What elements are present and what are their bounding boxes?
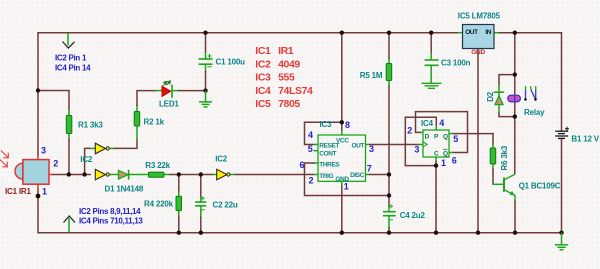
wire: C1 top plate lead xyxy=(205,52,207,59)
resistor R2 xyxy=(134,112,140,127)
wire: Q1 emitter to rail xyxy=(514,200,516,233)
wire: IC4 CLR node down xyxy=(435,161,437,233)
wire: R4 top lead from node xyxy=(178,175,180,193)
op-amp/inverter IC2a xyxy=(95,143,109,154)
junction: left rail at R1 branch xyxy=(36,88,40,92)
wire: IC3 OUT to IC4 CLK xyxy=(369,144,420,146)
junction: bottom rail at IC5 GND xyxy=(476,231,480,235)
svg-text:IC4 Pins 710,11,13: IC4 Pins 710,11,13 xyxy=(79,217,143,226)
relay coil xyxy=(508,95,521,102)
wire: C4 bottom to rail xyxy=(388,227,390,233)
capacitor C2 xyxy=(195,202,206,206)
junction: top rail at R5 xyxy=(387,31,391,35)
wire: IC3 VCC pin stub xyxy=(341,131,343,136)
ground arrow for IC2/IC4 pins xyxy=(64,216,76,232)
wire: R1 branch from left rail xyxy=(38,91,69,111)
capacitor C4 xyxy=(383,212,396,216)
wire: R1 bottom lead xyxy=(68,133,70,140)
svg-text:5: 5 xyxy=(453,134,458,144)
transistor Q1 BC109C xyxy=(504,174,515,200)
svg-text:IC5 LM7805: IC5 LM7805 xyxy=(458,11,501,20)
LED1 xyxy=(162,81,172,98)
svg-text:DISC: DISC xyxy=(350,172,365,179)
wire: IC2c input stub xyxy=(212,174,217,176)
inverter IC2b xyxy=(95,169,109,180)
wire: C4 top lead xyxy=(388,196,390,208)
wire: IC4 D pin stub xyxy=(420,131,424,133)
svg-text:555: 555 xyxy=(278,72,295,84)
wire: LED1 anode stub xyxy=(155,90,162,92)
wire: IC2c output stub xyxy=(230,174,236,176)
wire: C3 top lead from rail xyxy=(430,33,432,54)
wire: C4 top plate stub xyxy=(388,207,390,212)
supply arrow to IC2 pin1 / IC4 pin14 xyxy=(63,33,75,48)
svg-text:7: 7 xyxy=(367,164,372,174)
wire: IC3 THRES pin stub xyxy=(314,162,319,164)
svg-text:IC1 IR1: IC1 IR1 xyxy=(5,187,31,196)
svg-text:IC2 Pins 8,9,11,14: IC2 Pins 8,9,11,14 xyxy=(79,207,141,216)
junction: top rail at IC3 VCC xyxy=(340,31,344,35)
svg-text:8: 8 xyxy=(345,120,350,130)
junction: top rail at C1 xyxy=(203,31,207,35)
svg-text:GND: GND xyxy=(471,49,485,56)
capacitor C3 xyxy=(425,60,439,65)
wire: R4 top stub xyxy=(178,192,180,198)
wire: IC3 CONT pin 5 stub xyxy=(314,150,319,152)
wire: IC3 DISC to R5 column xyxy=(369,174,389,176)
wire: +5V top rail left of IC5 xyxy=(38,33,458,156)
wire: IC3 GND pin 1 to rail xyxy=(341,186,343,233)
wire: D2 branch bottom xyxy=(499,113,515,117)
junction: pin2 row at IC2a branch xyxy=(82,172,86,176)
ground symbol at battery / bottom rail xyxy=(555,233,568,250)
svg-text:D1 1N4148: D1 1N4148 xyxy=(105,184,144,193)
IC4 clock symbol xyxy=(423,142,427,147)
svg-text:IR1: IR1 xyxy=(278,45,294,57)
svg-text:C1 100u: C1 100u xyxy=(216,57,246,66)
wire: IC2a output to R2 xyxy=(114,139,137,148)
diode D1 1N4148 xyxy=(118,170,128,180)
junction: signal row at R4 xyxy=(177,172,181,176)
svg-text:74LS74: 74LS74 xyxy=(278,85,313,97)
wire: IR1 pin2 signal row xyxy=(52,174,91,176)
wire: R6 bottom stub xyxy=(492,163,494,169)
junction: LED cathode / C1 ground node xyxy=(203,88,207,92)
svg-text:B1 12 V: B1 12 V xyxy=(571,134,599,143)
wire: C2 bottom to rail xyxy=(200,217,202,233)
svg-text:1: 1 xyxy=(344,182,349,192)
junction: bottom rail at IC4 CLR xyxy=(434,231,438,235)
wire: IC3 RESET pin 4 loop xyxy=(305,122,342,144)
svg-text:3: 3 xyxy=(369,144,374,154)
wire: IC3 OUT pin stub xyxy=(366,144,371,146)
svg-text:IC2: IC2 xyxy=(255,58,271,70)
wire: IC2a input stub xyxy=(90,147,95,149)
C1 polarity marks xyxy=(208,54,212,67)
wire: D2 anode stub xyxy=(498,104,500,113)
junction: bottom rail at R4 xyxy=(177,231,181,235)
svg-text:IC4: IC4 xyxy=(255,85,271,97)
inverter IC2c xyxy=(217,169,230,180)
ground symbol under C1/LED node xyxy=(199,91,212,107)
svg-text:C2 22u: C2 22u xyxy=(213,200,238,209)
wire: R5 top stub xyxy=(388,59,390,65)
svg-text:6: 6 xyxy=(300,160,305,170)
svg-text:7805: 7805 xyxy=(278,98,300,110)
wire: LED1 cathode stub xyxy=(173,90,180,92)
junction: top rail at C3 xyxy=(429,31,433,35)
ground symbol under C3 xyxy=(422,83,442,88)
wire: relay coil bottom to collector node xyxy=(514,102,516,175)
IC3 pin numbers xyxy=(300,120,375,192)
junction: IR1 pin1 node xyxy=(36,194,41,199)
svg-text:R5 1M: R5 1M xyxy=(360,71,383,80)
wire: IC2b output stub to D1 anode xyxy=(109,174,118,176)
junction: DISC at R5 column xyxy=(387,172,391,176)
regulator IC5 LM7805 xyxy=(463,25,495,49)
resistor R1 xyxy=(66,116,72,134)
svg-text:Q1 BC109C: Q1 BC109C xyxy=(519,182,561,191)
IC list text block xyxy=(255,45,313,110)
svg-text:IC5: IC5 xyxy=(255,98,271,110)
wire: R6 top stub xyxy=(492,144,494,150)
wire: 12V column from rail to relay coil xyxy=(514,33,516,95)
junction: bottom rail at IC3 GND xyxy=(340,231,344,235)
svg-text:IC2 Pin 1: IC2 Pin 1 xyxy=(55,54,87,63)
svg-text:Q: Q xyxy=(443,134,448,141)
wire: LED1 cathode to C1 ground node xyxy=(178,90,206,92)
wire: IC4 CLR pin stub xyxy=(435,157,437,162)
wire: IC3 DISC pin stub xyxy=(366,174,371,176)
svg-text:C3 100n: C3 100n xyxy=(441,58,471,67)
svg-text:R4 220k: R4 220k xyxy=(144,200,174,209)
svg-text:4049: 4049 xyxy=(278,58,300,70)
wire: IC3 VCC pin 8 from top rail xyxy=(341,33,343,132)
svg-text:4: 4 xyxy=(439,118,444,128)
flip-flop IC4 74LS74 box xyxy=(423,130,449,157)
wire: IC5 OUT pin stub xyxy=(458,32,463,34)
svg-text:IC3: IC3 xyxy=(320,120,333,129)
wire: C1 bottom to ground node xyxy=(205,71,207,91)
wire: C1 bottom plate lead xyxy=(205,65,207,73)
resistor R6 xyxy=(490,148,496,164)
wire: IC3 RESET pin stub xyxy=(314,144,319,146)
svg-text:2: 2 xyxy=(53,158,58,168)
svg-text:R2 1k: R2 1k xyxy=(144,118,165,127)
wire: R2 top lead xyxy=(136,105,138,112)
svg-text:OUT: OUT xyxy=(465,29,478,36)
wire: C3 top plate stub xyxy=(430,53,432,60)
junction: 12V rail at relay column xyxy=(513,31,517,35)
svg-text:R1 3k3: R1 3k3 xyxy=(78,121,103,130)
svg-text:RESET: RESET xyxy=(319,143,339,150)
wire: IC2a input branch up xyxy=(85,148,91,174)
junction: IC4 PRE/CLR tie xyxy=(434,163,438,167)
wire: IC3 TRIG pin stub xyxy=(314,174,319,176)
wire: C1 top lead from rail xyxy=(205,33,207,53)
wire: R4 bottom to rail xyxy=(178,216,180,233)
wire: R3 to IC2c input xyxy=(170,174,214,176)
svg-text:CONT: CONT xyxy=(319,151,336,158)
svg-text:Relay: Relay xyxy=(524,108,545,117)
wire: IC4 Q output to R6 xyxy=(453,134,493,145)
wire: battery minus to bottom rail xyxy=(561,139,563,233)
wire: IC4 Q pin stub xyxy=(449,133,454,135)
svg-text:LED1: LED1 xyxy=(159,99,179,108)
wire: IC5 GND pin down to rail xyxy=(477,49,479,233)
wire: R5 top lead from rail xyxy=(388,33,390,60)
battery B1 xyxy=(555,131,568,138)
svg-text:P: P xyxy=(434,134,439,141)
wire: R4 bottom stub xyxy=(178,210,180,217)
wire: IC5 IN pin stub xyxy=(494,32,500,34)
wire: IC4 PRE pin stub xyxy=(435,125,437,130)
svg-text:6: 6 xyxy=(452,155,457,165)
capacitor C1 xyxy=(199,59,213,64)
wire: D1 cathode to R3 xyxy=(129,174,149,176)
C2 polarity marks xyxy=(201,196,205,210)
svg-text:C: C xyxy=(434,150,439,157)
svg-text:Q: Q xyxy=(443,150,448,157)
svg-text:5: 5 xyxy=(308,144,313,154)
IR beam arrows xyxy=(0,151,8,167)
junction: THRES loop at C4 xyxy=(387,193,391,197)
junction: 12V column at D2 top xyxy=(513,72,517,76)
wire: R2 top to LED1 anode xyxy=(137,91,156,106)
op-amp U IC3 555 box xyxy=(318,135,366,181)
svg-text:1: 1 xyxy=(441,158,446,168)
svg-text:OUT: OUT xyxy=(351,143,364,150)
svg-text:IC4 Pin 14: IC4 Pin 14 xyxy=(55,64,91,73)
junction: signal row at C2 xyxy=(199,172,203,176)
wire: C2 top lead from node xyxy=(200,175,202,199)
wire: D2 branch top xyxy=(499,75,515,86)
battery plus sign xyxy=(565,127,569,131)
wire: D2 cathode stub xyxy=(498,85,500,97)
junction: pin2 row at R1 xyxy=(67,172,71,176)
wire: C2 top plate stub xyxy=(200,197,202,202)
junction: IC3 VCC / RESET branch xyxy=(340,120,344,124)
svg-text:IC2: IC2 xyxy=(80,155,93,164)
wire: R5 bottom through DISC node to C4 node xyxy=(388,86,390,196)
svg-text:THRES: THRES xyxy=(319,162,340,169)
svg-text:R3 22k: R3 22k xyxy=(145,161,170,170)
IC3 inner pin names xyxy=(319,137,364,183)
wire: IC3 GND pin stub xyxy=(341,181,343,186)
svg-text:3: 3 xyxy=(414,145,419,155)
wire: IC2c output to IC3 TRIG xyxy=(235,174,315,176)
IR receiver IC1 body xyxy=(15,156,53,190)
wire: ground bottom rail xyxy=(38,189,562,233)
wire: C3 bottom plate to ground xyxy=(430,66,432,84)
svg-text:D: D xyxy=(425,134,430,141)
wire: R3 right lead xyxy=(164,174,171,176)
junction: bottom rail at C2 xyxy=(199,231,203,235)
svg-text:IC4: IC4 xyxy=(421,119,434,128)
IC4 pin numbers xyxy=(407,118,458,168)
junction: D2 bottom / coil bottom xyxy=(513,114,517,118)
diode D2 xyxy=(494,92,504,104)
svg-text:IC2: IC2 xyxy=(215,155,228,164)
junction: bottom rail at C4 xyxy=(387,231,391,235)
svg-text:IN: IN xyxy=(485,29,491,36)
wire: IC2a output stub xyxy=(109,147,115,149)
wire: 12V top rail right of IC5 xyxy=(499,33,562,131)
wire: C4 bottom plate stub xyxy=(388,216,390,228)
svg-text:TRIG: TRIG xyxy=(319,173,333,180)
wire: Q1 base lead xyxy=(492,183,503,185)
relay contacts xyxy=(524,86,537,101)
IC4 inner pin names xyxy=(425,134,448,158)
svg-text:3: 3 xyxy=(41,145,46,155)
wire: IC3 THRES pin 6 loop to C4 node xyxy=(305,163,390,196)
svg-text:IC3: IC3 xyxy=(255,72,271,84)
svg-text:2: 2 xyxy=(407,126,412,136)
wire: IC4 Qbar to D feedback loop xyxy=(416,112,468,153)
resistor R4 xyxy=(176,196,182,210)
wire: IC4 CLK pin stub xyxy=(419,144,424,146)
wire: R2 bottom lead xyxy=(136,125,138,140)
wire: R5 bottom stub xyxy=(388,80,390,87)
wire: C2 bottom plate stub xyxy=(200,206,202,218)
wire: R1 bottom to IR1 pin2 node xyxy=(68,139,70,175)
wire: R6 bottom to Q1 base xyxy=(492,168,494,184)
svg-text:1: 1 xyxy=(42,187,47,197)
junction: bottom rail at battery ground xyxy=(559,231,563,235)
wire: IC4 Qbar pin stub xyxy=(449,152,453,154)
wire: IC4 PRE pin 4 loop to CLR node xyxy=(405,117,436,165)
svg-text:R6 3k3: R6 3k3 xyxy=(500,145,509,170)
svg-text:IC1: IC1 xyxy=(255,45,271,57)
svg-text:D2: D2 xyxy=(486,91,495,102)
resistor R5 xyxy=(386,64,392,81)
resistor R3 xyxy=(149,172,164,177)
svg-text:C4 2u2: C4 2u2 xyxy=(400,211,426,220)
svg-text:2: 2 xyxy=(309,176,314,186)
C4 polarity marks xyxy=(389,204,393,220)
svg-text:4: 4 xyxy=(308,130,313,140)
wire: R1 top lead xyxy=(68,110,70,117)
junction: bottom rail at Q1 emitter xyxy=(513,231,517,235)
